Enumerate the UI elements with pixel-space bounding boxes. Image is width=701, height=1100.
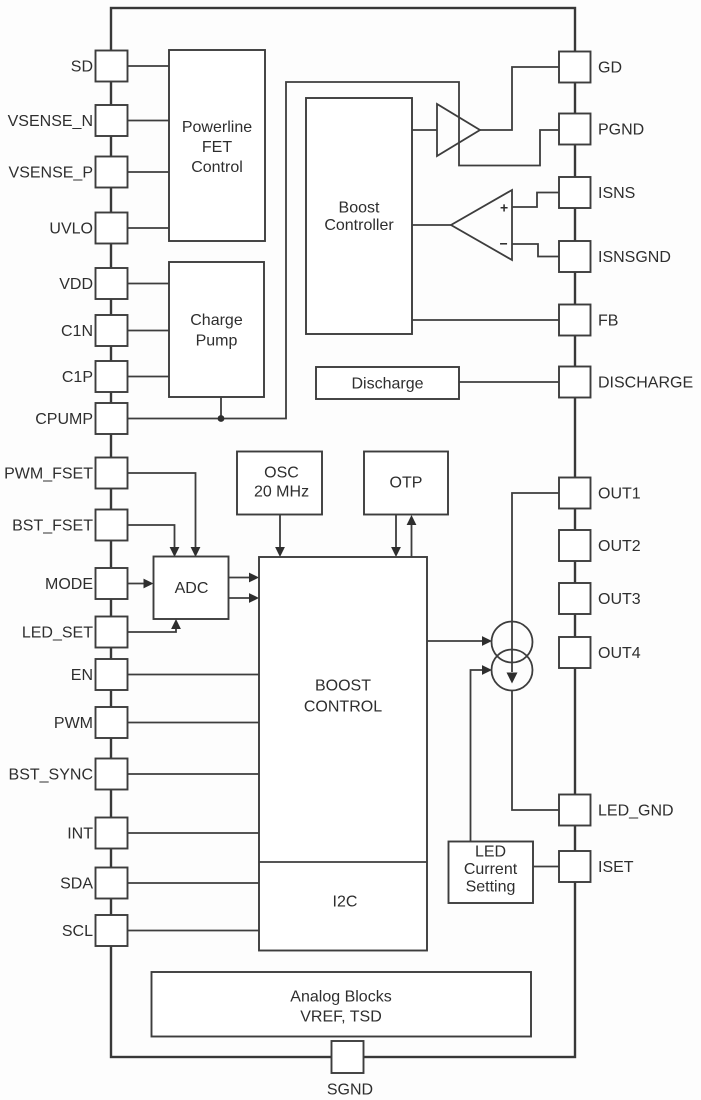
pin PGND [559,114,644,145]
pin BST_FSET [12,510,127,541]
wire OUT1 to current source and arrow inside [512,493,559,672]
pin SGND [327,1041,373,1099]
pin DISCHARGE [559,367,693,398]
pin SD [71,51,128,82]
svg-text:Setting: Setting [466,879,516,896]
chip outline border [111,8,575,1057]
wire INT to BOOST CONTROL [128,832,260,834]
wire ISNS to comparator plus input [512,193,559,208]
svg-text:PWM_FSET: PWM_FSET [4,466,93,483]
svg-text:VDD: VDD [59,276,93,293]
wire BOOST CONTROL to OTP (arrow up) [411,524,413,557]
pin OUT2 [559,530,641,561]
wire OTP to BOOST CONTROL (arrow down) [395,515,397,549]
svg-text:Boost: Boost [339,200,380,217]
pin UVLO [49,213,127,244]
block OTP [364,452,448,515]
wire EN to BOOST CONTROL [128,674,260,676]
svg-text:MODE: MODE [45,576,93,593]
pin LED_GND [559,795,674,826]
svg-text:Discharge: Discharge [351,376,423,393]
wire C1N to Charge Pump [128,330,170,332]
svg-text:INT: INT [67,826,93,843]
svg-text:UVLO: UVLO [49,221,93,238]
pin OUT4 [559,637,641,668]
wire LED_SET to ADC (arrow up) [128,628,177,632]
svg-text:ISNS: ISNS [598,185,635,202]
wire Charge Pump bottom stub [220,397,222,419]
wire PWM to BOOST CONTROL [128,722,260,724]
pin ISET [559,851,634,882]
svg-text:FB: FB [598,313,618,330]
pin INT [67,818,127,849]
current source circle top [492,622,533,663]
svg-text:LED_SET: LED_SET [22,625,93,642]
wire SCL to I2C [128,930,260,932]
block Boost Controller [306,98,412,334]
svg-text:VSENSE_N: VSENSE_N [8,113,93,130]
block ADC [154,557,229,620]
svg-text:Charge: Charge [190,312,243,329]
svg-text:FET: FET [202,139,232,156]
pin FB [559,305,618,336]
pin ISNS [559,177,635,208]
wire VDD to Charge Pump [128,283,170,285]
svg-text:Analog Blocks: Analog Blocks [290,989,391,1006]
svg-text:BST_SYNC: BST_SYNC [9,767,93,784]
svg-text:DISCHARGE: DISCHARGE [598,375,693,392]
wire SDA to I2C [128,882,260,884]
pin C1P [62,361,128,392]
wire LED Current Setting to ISET [533,866,559,868]
svg-text:CPUMP: CPUMP [35,411,93,428]
svg-text:CONTROL: CONTROL [304,699,382,716]
svg-text:BST_FSET: BST_FSET [12,518,93,535]
svg-text:OUT4: OUT4 [598,645,641,662]
wire SD to Powerline FET Control [128,65,170,67]
svg-text:SD: SD [71,59,93,76]
comparator triangle [451,190,512,260]
junction dot on CPUMP rail [218,415,225,422]
pin OUT1 [559,478,641,509]
svg-text:EN: EN [71,667,93,684]
pin OUT3 [559,583,641,614]
block Powerline FET Control [169,50,265,241]
wire ADC to BOOST CONTROL (arrow 1) [229,577,251,579]
pin GD [559,52,622,83]
pin BST_SYNC [9,759,128,790]
wire comparator output to Boost Controller [412,224,451,226]
block Analog Blocks VREF TSD [152,972,532,1037]
pin EN [71,659,128,690]
pin PWM_FSET [4,458,127,489]
svg-text:I2C: I2C [333,894,358,911]
svg-text:Controller: Controller [324,217,394,234]
wire OSC to BOOST CONTROL (arrow down) [279,515,281,549]
svg-text:SCL: SCL [62,923,93,940]
svg-text:OTP: OTP [390,475,423,492]
svg-text:LED: LED [475,844,506,861]
wire Boost Controller to gate buffer input [412,129,437,131]
svg-text:Current: Current [464,861,518,878]
pin SDA [60,868,127,899]
svg-text:PWM: PWM [54,715,93,732]
svg-text:C1P: C1P [62,369,93,386]
svg-text:VSENSE_P: VSENSE_P [9,165,93,182]
wire C1P to Charge Pump [128,376,170,378]
pin CPUMP [35,403,127,434]
wire BST_SYNC to BOOST CONTROL [128,773,260,775]
svg-text:VREF, TSD: VREF, TSD [300,1009,382,1026]
wire UVLO to Powerline FET Control [128,227,170,229]
svg-text:PGND: PGND [598,122,644,139]
svg-text:GD: GD [598,60,622,77]
pin PWM [54,707,128,738]
svg-text:−: − [500,236,508,252]
wire buffer output to GD [480,67,559,130]
wire VSENSE_P to Powerline FET Control [128,171,170,173]
wire VSENSE_N to Powerline FET Control [128,120,170,122]
block Discharge [316,367,459,399]
svg-text:Control: Control [191,159,243,176]
pin VSENSE_N [8,105,128,136]
svg-text:OUT3: OUT3 [598,591,641,608]
wire MODE to ADC (arrow right) [128,583,146,585]
wire ISNSGND to comparator minus input [512,244,559,257]
svg-text:ISET: ISET [598,859,634,876]
wire Discharge block to DISCHARGE pin [459,381,559,383]
pin SCL [62,915,128,946]
svg-text:Pump: Pump [196,333,238,350]
svg-text:OUT2: OUT2 [598,538,641,555]
pin ISNSGND [559,241,671,272]
block OSC 20 MHz [237,452,322,515]
block Charge Pump [169,262,264,397]
wire CPUMP rail to PGND side [128,82,560,419]
pin VDD [59,268,127,299]
current source circle bottom [492,650,533,691]
svg-text:20 MHz: 20 MHz [254,484,309,501]
wire PWM_FSET to ADC (arrow down) [128,473,196,548]
svg-text:OUT1: OUT1 [598,486,641,503]
svg-text:SGND: SGND [327,1082,373,1099]
svg-text:ADC: ADC [175,580,209,597]
svg-text:C1N: C1N [61,323,93,340]
wire BOOST CONTROL to current source (arrow) [427,640,483,642]
svg-text:OSC: OSC [264,465,299,482]
block LED Current Setting [449,842,534,904]
pin VSENSE_P [9,157,128,188]
svg-text:Powerline: Powerline [182,119,252,136]
wire current source to LED_GND [512,691,559,811]
pin MODE [45,568,128,599]
svg-text:+: + [500,200,508,216]
svg-text:ISNSGND: ISNSGND [598,249,671,266]
svg-text:BOOST: BOOST [315,678,371,695]
gate driver buffer triangle [437,104,480,156]
svg-text:SDA: SDA [60,876,93,893]
pin LED_SET [22,617,128,648]
svg-text:LED_GND: LED_GND [598,803,674,820]
wire Boost Controller FB [412,319,559,321]
block BOOST CONTROL with I2C section [259,557,427,951]
wire LED Current Setting to current source (arrow) [471,670,484,842]
wire BST_FSET to ADC (arrow down) [128,525,175,548]
pin C1N [61,315,128,346]
wire ADC to BOOST CONTROL (arrow 2) [229,597,251,599]
